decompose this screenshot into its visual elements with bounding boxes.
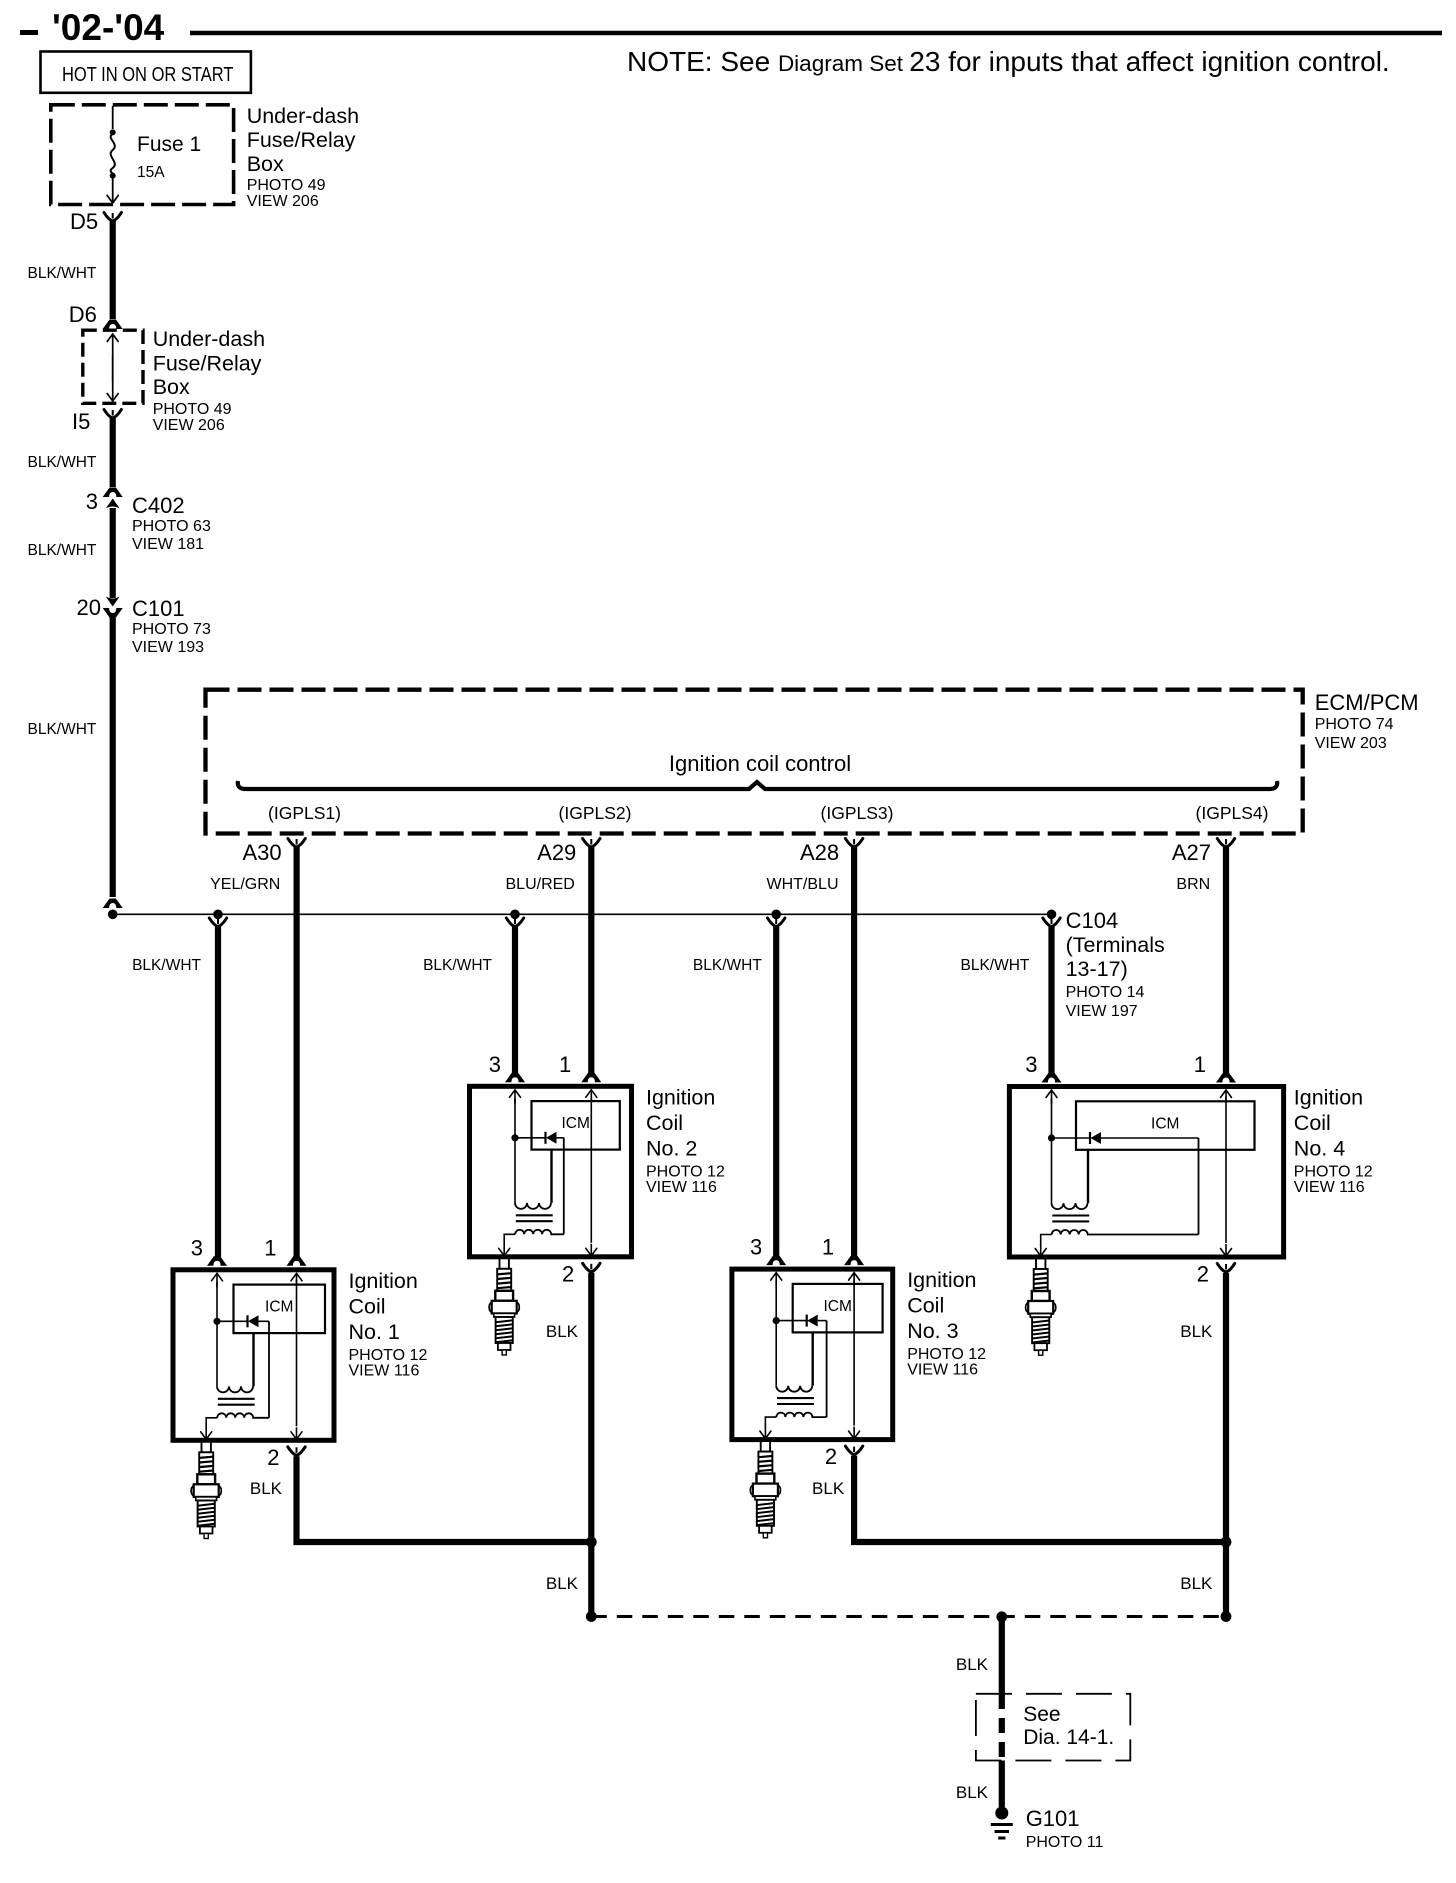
wire BLK/WHT D5 to D6: [110, 221, 116, 319]
wire YEL/GRN A30 to coil 1 pin 1: [294, 847, 300, 1257]
spark plug coil 3: [750, 1441, 780, 1538]
primary winding L1 coil 2: [515, 1203, 551, 1209]
wire BLK to See Dia box: [999, 1617, 1005, 1694]
svg-text:PHOTO 49: PHOTO 49: [247, 177, 326, 194]
connector pin 3 coil 3: [766, 1256, 786, 1266]
connector pin 1 coil 3: [844, 1256, 864, 1266]
splice junction 2 on BLK/WHT bus: [510, 910, 520, 920]
wire junction down to primary coil 2: [514, 1138, 516, 1203]
wire BLK coil 1 pin 2 to splice: [297, 1456, 592, 1542]
wire tap down to secondary coil 3: [826, 1321, 828, 1418]
splice junction left: [586, 1537, 597, 1548]
transformer core coil 1: [218, 1398, 255, 1400]
wire BLK coil 4 pin 2 down: [1223, 1273, 1229, 1542]
svg-text:PHOTO 73: PHOTO 73: [132, 621, 211, 638]
bundle brace for ignition coil control outputs: [238, 781, 1277, 789]
wire BLK/WHT C402 to C101: [110, 508, 116, 598]
wire BLK/WHT branch to coil 4 pin 3: [1048, 927, 1054, 1074]
junction left on common: [586, 1611, 597, 1622]
wire BLK/WHT splice bus: [113, 913, 1052, 915]
arrow pin 2 exit coil 2: [586, 1244, 597, 1256]
wire junction down to primary coil 4: [1051, 1138, 1053, 1203]
branch connector 4: [1043, 918, 1060, 927]
diode D coil 3: [807, 1315, 818, 1327]
svg-text:20: 20: [77, 595, 101, 620]
transformer core coil 4: [1052, 1214, 1089, 1216]
spark plug coil 4: [1026, 1259, 1056, 1356]
arrow to spark plug coil 4: [1035, 1244, 1046, 1256]
wire tap down to secondary coil 1: [268, 1321, 270, 1418]
primary winding L1 coil 1: [217, 1386, 253, 1392]
svg-text:NOTE: See Diagram Set 23 for i: NOTE: See Diagram Set 23 for inputs that…: [627, 46, 1390, 77]
svg-text:Fuse/Relay: Fuse/Relay: [153, 352, 262, 376]
svg-text:Ignition: Ignition: [646, 1085, 715, 1109]
ICM box coil 3: [793, 1284, 883, 1333]
svg-text:BLK/WHT: BLK/WHT: [28, 454, 97, 471]
under-dash fuse/relay box 2 (dashed): [83, 330, 143, 403]
wire secondary to spark plug coil 3: [765, 1417, 776, 1428]
svg-text:VIEW 181: VIEW 181: [132, 536, 204, 553]
pin 3 internal arrow coil 1: [212, 1273, 223, 1287]
spark plug coil 1: [191, 1442, 221, 1539]
svg-text:A29: A29: [537, 840, 576, 865]
svg-text:PHOTO 12: PHOTO 12: [646, 1163, 725, 1180]
svg-text:BLK: BLK: [546, 1574, 579, 1593]
primary winding L1 coil 4: [1052, 1203, 1088, 1209]
svg-text:D5: D5: [70, 209, 98, 234]
svg-text:A27: A27: [1172, 840, 1211, 865]
ICM box coil 4: [1076, 1101, 1255, 1150]
svg-text:BRN: BRN: [1176, 876, 1210, 893]
svg-text:15A: 15A: [137, 164, 165, 181]
wire BLK to ground G101: [999, 1761, 1005, 1808]
svg-text:VIEW 116: VIEW 116: [1294, 1179, 1365, 1196]
svg-text:A28: A28: [800, 840, 839, 865]
svg-text:1: 1: [822, 1235, 834, 1260]
svg-text:PHOTO 63: PHOTO 63: [132, 518, 211, 535]
svg-text:No. 3: No. 3: [907, 1319, 958, 1343]
junction node coil 3: [773, 1317, 780, 1324]
svg-text:PHOTO 49: PHOTO 49: [153, 401, 232, 418]
ground G101 symbol: [991, 1807, 1013, 1839]
arrow pin 2 exit coil 4: [1221, 1244, 1232, 1256]
title horizontal rule: [190, 31, 1442, 35]
splice junction right: [1221, 1537, 1232, 1548]
svg-text:BLK: BLK: [812, 1479, 845, 1498]
wire BLK/WHT branch to coil 2 pin 3: [512, 927, 518, 1074]
svg-text:3: 3: [1025, 1052, 1037, 1077]
spark plug coil 2: [489, 1258, 519, 1355]
wire diode to secondary tap coil 1: [259, 1320, 270, 1322]
svg-text:A30: A30: [242, 840, 281, 865]
connector C101 (upper half, arrowhead down): [106, 597, 120, 607]
connector pin 3 coil 1: [207, 1256, 227, 1266]
pin 1 internal arrow coil 1: [291, 1273, 302, 1285]
svg-text:(IGPLS4): (IGPLS4): [1196, 803, 1269, 823]
diode D coil 2: [546, 1132, 557, 1144]
transformer core coil 2: [516, 1214, 553, 1216]
wire primary to ICM coil 2: [550, 1150, 552, 1203]
wire pin 3 to junction coil 4: [1051, 1099, 1053, 1139]
connector pin 3 coil 4: [1042, 1073, 1062, 1083]
svg-text:ICM: ICM: [265, 1299, 293, 1316]
svg-text:'02-'04: '02-'04: [52, 7, 165, 48]
wire BLK left splice down: [588, 1542, 594, 1617]
wire pin 3 to junction coil 3: [775, 1281, 777, 1321]
ICM box coil 2: [532, 1101, 620, 1150]
wire secondary to spark plug coil 1: [206, 1418, 217, 1429]
svg-text:PHOTO 11: PHOTO 11: [1026, 1834, 1104, 1851]
secondary winding L2 coil 1: [217, 1413, 269, 1418]
svg-text:BLK: BLK: [956, 1655, 989, 1674]
svg-text:ECM/PCM: ECM/PCM: [1315, 690, 1419, 715]
svg-text:VIEW 116: VIEW 116: [646, 1179, 717, 1196]
arrow pin 2 exit coil 1: [291, 1427, 302, 1439]
wire pin 1 through ICM to pin 2 coil 3: [853, 1279, 855, 1426]
wire junction to diode coil 4: [1052, 1137, 1091, 1139]
junction at bus left end: [108, 910, 118, 920]
junction center on common: [996, 1611, 1007, 1622]
wire WHT/BLU A28 to coil 3 pin 1: [851, 847, 857, 1257]
svg-text:BLK: BLK: [250, 1479, 283, 1498]
svg-text:ICM: ICM: [561, 1115, 589, 1132]
branch connector 3: [768, 918, 785, 927]
ignition coil No. 1 outer box: [173, 1270, 334, 1441]
wire BLK coil 2 pin 2 down: [588, 1273, 594, 1542]
fuse F1 symbol: [110, 129, 116, 135]
junction node coil 2: [511, 1134, 518, 1141]
secondary winding L2 coil 4: [1052, 1230, 1199, 1235]
wire BLK right splice down: [1223, 1542, 1229, 1617]
wire junction to diode coil 1: [217, 1320, 248, 1322]
connector pin 3 coil 2: [505, 1073, 525, 1083]
wire BLK coil 3 pin 2 to splice: [854, 1456, 1226, 1542]
transformer core coil 3: [777, 1397, 814, 1399]
secondary winding L2 coil 3: [776, 1413, 826, 1418]
wire BLK/WHT C101 to splice bus: [110, 617, 116, 897]
svg-text:2: 2: [267, 1445, 279, 1470]
See Dia. 14-1. box (dashed): [976, 1694, 1130, 1761]
svg-text:ICM: ICM: [823, 1298, 851, 1315]
connector D6: [103, 320, 123, 330]
svg-text:BLK: BLK: [956, 1783, 989, 1802]
svg-text:WHT/BLU: WHT/BLU: [767, 876, 839, 893]
svg-text:Coil: Coil: [646, 1111, 683, 1135]
branch connector 1: [209, 918, 226, 927]
junction node coil 4: [1048, 1134, 1055, 1141]
wire BLK inside See Dia box (dashed): [999, 1694, 1005, 1761]
svg-text:1: 1: [264, 1235, 276, 1260]
svg-text:No. 2: No. 2: [646, 1136, 697, 1160]
svg-text:Coil: Coil: [349, 1294, 386, 1318]
wire inside box 2: [112, 355, 114, 382]
wire tap down to secondary coil 2: [563, 1138, 565, 1235]
svg-text:3: 3: [489, 1052, 501, 1077]
wire BLK/WHT branch to coil 3 pin 3: [773, 927, 779, 1258]
svg-text:C402: C402: [132, 493, 185, 518]
svg-text:Ignition: Ignition: [349, 1269, 418, 1293]
wire BLK/WHT I5 to C402: [110, 418, 116, 487]
wire diode to secondary tap coil 3: [818, 1320, 827, 1322]
svg-text:YEL/GRN: YEL/GRN: [210, 876, 280, 893]
svg-text:BLK: BLK: [1180, 1574, 1213, 1593]
svg-text:3: 3: [750, 1235, 762, 1260]
connector pin 1 coil 2: [581, 1073, 601, 1083]
svg-text:VIEW 206: VIEW 206: [153, 417, 225, 434]
wire secondary to spark plug coil 2: [504, 1234, 515, 1245]
wire primary to ICM coil 1: [252, 1333, 254, 1386]
svg-text:PHOTO 14: PHOTO 14: [1066, 984, 1145, 1001]
svg-text:D6: D6: [69, 302, 97, 327]
svg-text:3: 3: [86, 489, 98, 514]
svg-text:BLK/WHT: BLK/WHT: [693, 957, 762, 974]
svg-text:See: See: [1023, 1703, 1060, 1726]
arrow to spark plug coil 1: [201, 1427, 212, 1439]
ignition coil No. 3 outer box: [732, 1269, 893, 1440]
junction node coil 1: [213, 1318, 220, 1325]
wire BLU/RED A29 to coil 2 pin 1: [588, 847, 594, 1074]
svg-text:BLK: BLK: [1180, 1322, 1213, 1341]
svg-text:(IGPLS1): (IGPLS1): [268, 803, 341, 823]
connector pin 2 coil 2: [583, 1263, 600, 1272]
connector A27: [1217, 839, 1234, 848]
ignition coil No. 4 outer box: [1009, 1087, 1283, 1258]
svg-text:VIEW 193: VIEW 193: [132, 639, 204, 656]
connector C101 (lower half): [103, 608, 123, 618]
wire tap down to secondary coil 4: [1198, 1138, 1200, 1235]
svg-text:BLK/WHT: BLK/WHT: [423, 957, 492, 974]
connector pin 2 coil 3: [845, 1446, 862, 1455]
ignition coil No. 2 outer box: [470, 1086, 632, 1257]
pin 3 internal arrow coil 4: [1046, 1090, 1057, 1104]
diode D coil 1: [248, 1315, 259, 1327]
arrow up inside box 2: [107, 334, 118, 368]
wire pin 3 to junction coil 2: [514, 1098, 516, 1138]
svg-text:1: 1: [559, 1052, 571, 1077]
connector A29: [583, 839, 600, 848]
svg-text:VIEW 203: VIEW 203: [1315, 735, 1387, 752]
wire BLK/WHT branch to coil 1 pin 3: [215, 927, 221, 1258]
svg-text:Ignition: Ignition: [1294, 1086, 1363, 1110]
svg-text:VIEW 116: VIEW 116: [349, 1362, 420, 1379]
ICM box coil 1: [234, 1285, 326, 1334]
connector C402 (lower half, arrowhead up): [106, 499, 120, 509]
wire end connector at bus: [103, 899, 123, 909]
svg-text:Fuse 1: Fuse 1: [137, 133, 201, 156]
svg-text:Coil: Coil: [907, 1294, 944, 1318]
wire primary to ICM coil 4: [1087, 1150, 1089, 1203]
svg-text:1: 1: [1194, 1052, 1206, 1077]
pin 1 internal arrow coil 2: [586, 1090, 597, 1102]
wire junction to diode coil 2: [515, 1137, 546, 1139]
svg-text:VIEW 197: VIEW 197: [1066, 1003, 1138, 1020]
svg-text:(IGPLS3): (IGPLS3): [821, 803, 894, 823]
wire primary to ICM coil 3: [812, 1332, 814, 1385]
secondary winding L2 coil 2: [515, 1230, 564, 1235]
pin 3 internal arrow coil 3: [771, 1273, 782, 1287]
wire junction down to primary coil 1: [216, 1321, 218, 1386]
svg-text:No. 4: No. 4: [1294, 1137, 1345, 1161]
pin 3 internal arrow coil 2: [510, 1090, 521, 1104]
svg-text:C101: C101: [132, 596, 185, 621]
splice junction 4 on BLK/WHT bus: [1047, 910, 1057, 920]
svg-text:G101: G101: [1026, 1806, 1080, 1831]
svg-text:VIEW 206: VIEW 206: [247, 193, 319, 210]
svg-text:2: 2: [825, 1444, 837, 1469]
pin 1 internal arrow coil 4: [1221, 1090, 1232, 1102]
splice junction 1 on BLK/WHT bus: [213, 910, 223, 920]
svg-text:(Terminals: (Terminals: [1066, 933, 1165, 957]
connector D5: [104, 213, 121, 222]
connector C402 (upper half): [103, 488, 123, 498]
svg-text:(IGPLS2): (IGPLS2): [559, 803, 632, 823]
svg-text:Box: Box: [247, 152, 284, 176]
wire BRN A27 to coil 4 pin 1: [1223, 847, 1229, 1074]
svg-text:BLU/RED: BLU/RED: [506, 876, 575, 893]
svg-text:BLK/WHT: BLK/WHT: [28, 542, 97, 559]
svg-text:I5: I5: [72, 409, 90, 434]
svg-text:13-17): 13-17): [1066, 957, 1128, 981]
svg-text:PHOTO 74: PHOTO 74: [1315, 716, 1394, 733]
connector A30: [288, 839, 305, 848]
svg-text:PHOTO 12: PHOTO 12: [1294, 1164, 1373, 1181]
arrow to spark plug coil 3: [760, 1427, 771, 1439]
arrow down inside box 2: [107, 367, 118, 401]
svg-text:2: 2: [1197, 1262, 1209, 1287]
connector pin 2 coil 1: [288, 1447, 305, 1456]
svg-text:Under-dash: Under-dash: [247, 104, 359, 128]
wire pin 1 through ICM to pin 2 coil 2: [590, 1096, 592, 1243]
wire pin 1 through ICM to pin 2 coil 1: [296, 1280, 298, 1427]
splice junction 3 on BLK/WHT bus: [771, 910, 781, 920]
wire pin 1 through ICM to pin 2 coil 4: [1225, 1097, 1227, 1244]
svg-text:ICM: ICM: [1151, 1115, 1179, 1132]
junction right on common: [1221, 1611, 1232, 1622]
svg-text:Fuse/Relay: Fuse/Relay: [247, 128, 356, 152]
connector I5: [104, 410, 121, 419]
diode D coil 4: [1090, 1132, 1101, 1144]
svg-text:BLK/WHT: BLK/WHT: [28, 265, 97, 282]
arrow to spark plug coil 2: [499, 1244, 510, 1256]
svg-text:BLK/WHT: BLK/WHT: [28, 721, 97, 738]
wire junction down to primary coil 3: [775, 1321, 777, 1386]
svg-text:Box: Box: [153, 375, 190, 399]
label box HOT IN ON OR START: [41, 52, 251, 93]
wire pin 3 to junction coil 1: [216, 1282, 218, 1322]
svg-text:C104: C104: [1066, 908, 1119, 933]
wire fuse to D5 with arrow: [107, 177, 118, 203]
svg-text:Ignition: Ignition: [907, 1268, 976, 1292]
svg-text:No. 1: No. 1: [349, 1320, 400, 1344]
svg-text:BLK/WHT: BLK/WHT: [132, 957, 201, 974]
wire fuse feed: [112, 106, 114, 129]
wire junction to diode coil 3: [776, 1320, 807, 1322]
svg-text:BLK/WHT: BLK/WHT: [961, 957, 1030, 974]
connector pin 2 coil 4: [1217, 1264, 1234, 1273]
primary winding L1 coil 3: [776, 1386, 812, 1392]
connector pin 1 coil 4: [1216, 1073, 1236, 1083]
svg-text:Dia. 14-1.: Dia. 14-1.: [1023, 1726, 1114, 1749]
wire diode to secondary tap coil 4: [1101, 1137, 1199, 1139]
svg-text:VIEW 116: VIEW 116: [907, 1362, 978, 1379]
branch connector 2: [506, 918, 523, 927]
title leading dash: [20, 30, 38, 35]
svg-text:2: 2: [562, 1261, 574, 1286]
svg-text:Coil: Coil: [1294, 1111, 1331, 1135]
svg-text:3: 3: [191, 1235, 203, 1260]
connector pin 1 coil 1: [287, 1256, 307, 1266]
svg-text:Under-dash: Under-dash: [153, 327, 265, 351]
pin 1 internal arrow coil 3: [849, 1273, 860, 1285]
wire secondary to spark plug coil 4: [1041, 1235, 1052, 1246]
svg-text:HOT IN ON OR START: HOT IN ON OR START: [62, 64, 234, 86]
connector A28: [845, 839, 862, 848]
wire BLK common (dashed): [591, 1615, 1226, 1618]
svg-text:Ignition coil control: Ignition coil control: [669, 751, 851, 776]
svg-text:PHOTO 12: PHOTO 12: [349, 1347, 428, 1364]
under-dash fuse/relay box 1 (dashed): [51, 105, 234, 205]
ECM/PCM box (dashed): [206, 690, 1303, 834]
svg-text:BLK: BLK: [546, 1322, 579, 1341]
wire diode to secondary tap coil 2: [557, 1137, 564, 1139]
svg-text:PHOTO 12: PHOTO 12: [907, 1346, 986, 1363]
arrow pin 2 exit coil 3: [849, 1427, 860, 1439]
